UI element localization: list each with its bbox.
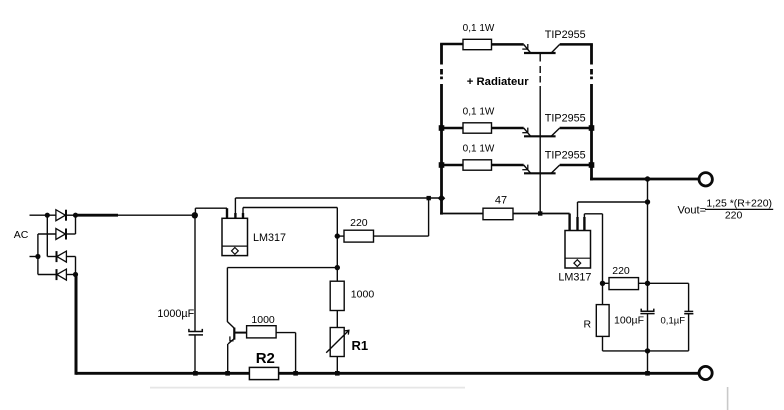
- svg-text:1000µF: 1000µF: [157, 308, 194, 320]
- svg-text:0,1 1W: 0,1 1W: [463, 23, 495, 34]
- svg-text:1,25 *(R+220): 1,25 *(R+220): [706, 198, 772, 210]
- svg-text:TIP2955: TIP2955: [545, 149, 586, 161]
- svg-text:AC: AC: [14, 229, 29, 241]
- svg-text:R: R: [584, 319, 592, 331]
- svg-text:0,1 1W: 0,1 1W: [463, 144, 495, 155]
- svg-text:220: 220: [612, 265, 630, 277]
- svg-text:R1: R1: [352, 338, 369, 353]
- svg-text:220: 220: [350, 217, 368, 229]
- svg-text:+ Radiateur: + Radiateur: [467, 76, 529, 88]
- svg-text:1000: 1000: [251, 314, 275, 326]
- svg-text:1000: 1000: [351, 289, 375, 301]
- svg-text:TIP2955: TIP2955: [545, 29, 586, 41]
- svg-text:LM317: LM317: [253, 232, 286, 244]
- svg-text:0,1µF: 0,1µF: [661, 315, 686, 326]
- svg-text:220: 220: [725, 210, 743, 222]
- svg-text:0,1 1W: 0,1 1W: [463, 107, 495, 118]
- svg-text:R2: R2: [256, 350, 275, 367]
- svg-text:47: 47: [495, 194, 507, 206]
- svg-text:Vout=: Vout=: [678, 204, 706, 216]
- svg-text:TIP2955: TIP2955: [545, 112, 586, 124]
- svg-text:LM317: LM317: [558, 272, 591, 284]
- svg-text:100µF: 100µF: [614, 315, 644, 327]
